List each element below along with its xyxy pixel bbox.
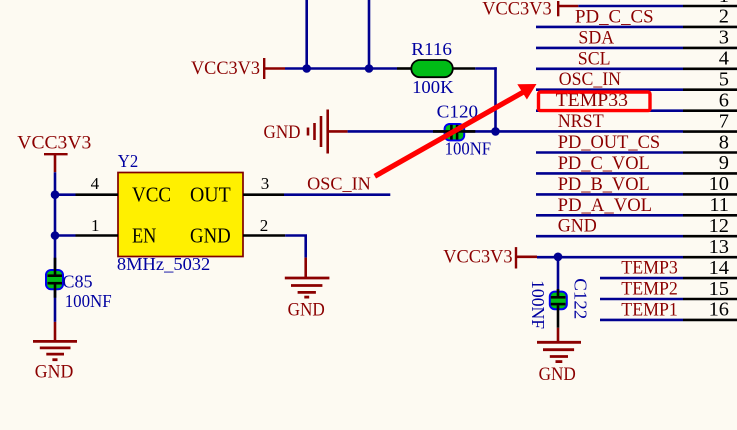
- wire from resistor down to net: [475, 67, 497, 70]
- svg-text:R116: R116: [411, 39, 452, 59]
- svg-text:15: 15: [709, 278, 729, 300]
- wire OSC net horizontal (pin 7 row): [348, 130, 683, 133]
- connector pin 1: [578, 5, 683, 8]
- node junction pin4: [51, 190, 60, 199]
- wire stub pin1: [55, 234, 76, 237]
- svg-text:8: 8: [719, 131, 729, 153]
- node junction pin1: [51, 231, 60, 240]
- connector pin 9: [536, 172, 683, 175]
- svg-text:PD_A_VOL: PD_A_VOL: [558, 195, 652, 216]
- connector pin 4: [536, 68, 683, 71]
- wire top horizontal net: [285, 67, 397, 70]
- svg-text:100K: 100K: [412, 77, 454, 97]
- svg-text:GND: GND: [264, 122, 301, 143]
- pin 2: [243, 234, 285, 237]
- svg-text:OSC_IN: OSC_IN: [559, 69, 621, 90]
- svg-text:14: 14: [709, 257, 729, 279]
- svg-text:TEMP3: TEMP3: [621, 258, 678, 279]
- svg-text:100NF: 100NF: [65, 291, 112, 311]
- connector pin 14: [600, 277, 683, 280]
- svg-text:GND: GND: [35, 362, 74, 383]
- svg-text:7: 7: [719, 110, 729, 132]
- connector pin 13: [537, 256, 683, 259]
- node junction top 1: [302, 64, 311, 73]
- svg-text:9: 9: [719, 152, 729, 174]
- ground GND (bottom left): [54, 322, 57, 342]
- svg-text:PD_C_CS: PD_C_CS: [575, 6, 654, 27]
- svg-text:11: 11: [709, 194, 729, 216]
- svg-text:EN: EN: [132, 224, 156, 248]
- capacitor C85: [46, 270, 63, 289]
- svg-text:TEMP1: TEMP1: [621, 299, 678, 320]
- capacitor C122: [557, 257, 560, 291]
- svg-text:12: 12: [709, 215, 729, 237]
- wire pin2 to ground: [285, 234, 307, 237]
- ground GND (below C122): [557, 328, 560, 343]
- connector pin 15: [600, 298, 683, 301]
- wire OSC_IN from pin3: [284, 193, 390, 196]
- svg-text:3: 3: [261, 174, 270, 193]
- connector pin 8: [536, 151, 683, 154]
- connector pin 10: [536, 193, 683, 196]
- annotation red box around TEMP33: [539, 92, 651, 111]
- svg-text:SDA: SDA: [578, 27, 614, 48]
- wire vertical from top edge 2: [368, 0, 371, 69]
- svg-text:10: 10: [709, 173, 729, 195]
- svg-text:5: 5: [719, 69, 729, 91]
- svg-text:VCC3V3: VCC3V3: [191, 58, 260, 79]
- svg-text:16: 16: [709, 299, 729, 321]
- svg-text:NRST: NRST: [558, 111, 605, 132]
- svg-text:4: 4: [719, 48, 729, 70]
- svg-text:C122: C122: [571, 278, 591, 319]
- svg-text:VCC3V3: VCC3V3: [17, 133, 91, 154]
- svg-text:4: 4: [91, 174, 100, 193]
- svg-text:GND: GND: [558, 216, 597, 237]
- ground GND (below pin 2): [285, 277, 330, 280]
- svg-text:2: 2: [260, 216, 269, 235]
- pin 1: [76, 234, 119, 237]
- connector pin 7: [683, 130, 737, 133]
- svg-text:PD_OUT_CS: PD_OUT_CS: [558, 132, 661, 153]
- svg-text:100NF: 100NF: [528, 280, 548, 329]
- svg-text:GND: GND: [288, 300, 325, 321]
- wire vertical from top edge 1: [305, 0, 308, 69]
- wire stub pin4: [55, 193, 76, 196]
- svg-text:2: 2: [719, 6, 729, 28]
- oscillator Y2 body: [118, 173, 243, 257]
- svg-text:C85: C85: [62, 271, 92, 291]
- svg-text:OUT: OUT: [190, 182, 231, 206]
- svg-text:VCC: VCC: [132, 182, 171, 206]
- svg-text:8MHz_5032: 8MHz_5032: [117, 254, 210, 274]
- connector pin 11: [536, 214, 683, 217]
- connector pin 5: [536, 88, 683, 91]
- svg-text:VCC3V3: VCC3V3: [443, 247, 512, 268]
- svg-text:OSC_IN: OSC_IN: [307, 173, 371, 193]
- connector pin 6: [536, 109, 683, 112]
- wire left vertical net: [54, 172, 57, 322]
- svg-text:SCL: SCL: [578, 48, 611, 69]
- pin 4: [76, 193, 119, 196]
- pin 3: [243, 193, 284, 196]
- connector pin 2: [536, 26, 683, 29]
- svg-text:3: 3: [719, 27, 729, 49]
- svg-text:PD_C_VOL: PD_C_VOL: [558, 153, 650, 174]
- svg-text:PD_B_VOL: PD_B_VOL: [558, 174, 650, 195]
- svg-text:GND: GND: [190, 224, 231, 248]
- connector pin 12: [536, 235, 683, 238]
- svg-text:TEMP2: TEMP2: [621, 279, 678, 300]
- node junction top 2: [365, 64, 374, 73]
- svg-text:VCC3V3: VCC3V3: [482, 0, 552, 20]
- capacitor C120: [445, 124, 465, 140]
- svg-text:13: 13: [709, 236, 729, 258]
- svg-text:100NF: 100NF: [445, 138, 492, 158]
- annotation red arrow: [375, 92, 523, 176]
- node junction at C120 net: [491, 127, 500, 136]
- connector pin 3: [536, 47, 683, 50]
- resistor R116: [397, 67, 411, 70]
- connector pin 16: [600, 319, 683, 322]
- node junction pin13: [554, 252, 563, 261]
- svg-text:GND: GND: [539, 364, 576, 385]
- svg-text:6: 6: [719, 90, 729, 112]
- svg-text:1: 1: [91, 216, 100, 235]
- svg-text:Y2: Y2: [118, 151, 138, 171]
